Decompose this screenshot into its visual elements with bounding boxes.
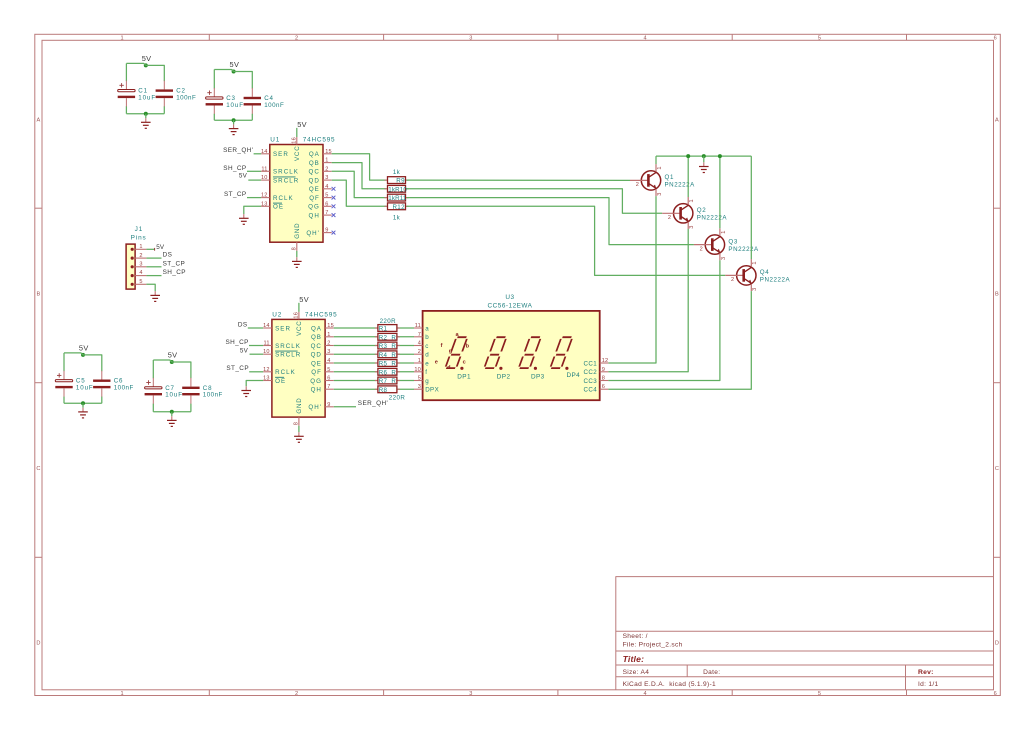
svg-text:R: R (391, 343, 396, 350)
svg-text:C: C (36, 466, 40, 472)
svg-text:3: 3 (721, 257, 727, 260)
svg-text:5: 5 (139, 279, 142, 285)
svg-text:D: D (995, 641, 999, 647)
capacitor C2 (156, 81, 197, 114)
power 5V at U2 SRCLR (240, 348, 249, 355)
junction C3/C4 gnd (232, 118, 236, 122)
wire U2 QC to R3 (334, 345, 377, 347)
svg-text:R3: R3 (379, 343, 388, 350)
svg-text:2: 2 (418, 349, 421, 355)
svg-text:QF: QF (309, 195, 320, 202)
svg-text:ST_CP: ST_CP (163, 260, 186, 267)
junction rail at ground (702, 154, 706, 158)
label DS at U2 (238, 321, 248, 328)
wire U1 QB to R10 (332, 163, 387, 189)
svg-text:1: 1 (657, 166, 663, 169)
wire R5 to U3 (398, 362, 414, 364)
wire R6 to U3 (398, 371, 414, 373)
wire collector rail (656, 155, 751, 157)
svg-text:9: 9 (325, 228, 328, 234)
pin 3 QD of U1 (309, 175, 332, 184)
svg-text:PN2222A: PN2222A (665, 182, 696, 189)
svg-text:A: A (37, 118, 41, 124)
pin 16 VCC of U2 (294, 312, 303, 336)
display digit 2 segments (484, 337, 506, 370)
wire SH_CP to U2 SRCLK (249, 345, 263, 347)
capacitor C1 (118, 81, 156, 114)
svg-text:QH': QH' (308, 404, 321, 411)
wire R10 to Q2 base (407, 189, 663, 214)
wire C6 top right (83, 355, 102, 371)
label ST_CP at J1 (163, 260, 186, 267)
svg-text:3: 3 (469, 36, 472, 42)
svg-text:SH_CP: SH_CP (223, 165, 246, 172)
IC U3 display body (423, 311, 600, 400)
pin 6 QG of U1 (308, 201, 332, 210)
ground C7/C8 (167, 416, 177, 426)
svg-text:Id: 1/1: Id: 1/1 (918, 681, 938, 688)
svg-text:QH: QH (309, 212, 320, 219)
svg-text:a: a (425, 325, 429, 332)
svg-text:1: 1 (327, 332, 330, 338)
svg-text:14: 14 (261, 149, 268, 155)
display digit 3 segments (519, 337, 541, 370)
svg-text:R: R (391, 369, 396, 376)
IC U1 value 74HC595 (303, 137, 336, 144)
wire U1 GND to ground (296, 251, 298, 257)
svg-text:Q4: Q4 (760, 269, 770, 276)
svg-text:2: 2 (139, 253, 142, 259)
svg-text:1: 1 (418, 358, 421, 364)
pin 2 QC of U1 (309, 166, 332, 175)
svg-text:SER_QH': SER_QH' (223, 147, 253, 154)
svg-text:R: R (391, 361, 396, 368)
svg-text:R5: R5 (379, 361, 388, 368)
svg-text:d: d (447, 365, 451, 371)
svg-text:2: 2 (668, 215, 671, 221)
svg-text:11: 11 (263, 341, 269, 347)
svg-text:6: 6 (994, 36, 997, 42)
svg-text:4: 4 (327, 358, 330, 364)
svg-text:QD: QD (309, 177, 320, 184)
display digit1 segment letters (435, 332, 470, 371)
IC U2 reference (272, 311, 282, 318)
label ST_CP at U2 (226, 365, 249, 372)
label DS at J1 (163, 252, 173, 259)
pin 9 QH' of U2 (308, 402, 333, 411)
wire C1 left vertical (125, 63, 127, 81)
svg-text:QE: QE (311, 360, 322, 367)
resistor R1 220R (375, 318, 400, 332)
svg-text:12: 12 (602, 358, 609, 364)
svg-text:f: f (441, 343, 443, 349)
wire J1 pin4 to SH_CP (146, 275, 161, 277)
pin 7 QH of U2 (311, 384, 334, 393)
svg-text:PN2222A: PN2222A (697, 215, 728, 222)
pin 5 of J1 (131, 279, 147, 286)
pin 13 OE of U1 (261, 201, 284, 210)
ground U1 GND (292, 257, 302, 267)
no-connect U1 QF (332, 196, 336, 200)
svg-text:GND: GND (294, 223, 301, 239)
wire C2 top right (146, 65, 165, 81)
wire R3 to U3 (398, 345, 414, 347)
svg-text:DP4: DP4 (566, 372, 580, 379)
svg-text:VCC: VCC (296, 320, 303, 335)
svg-text:QH': QH' (306, 230, 319, 237)
capacitor C8 (182, 378, 223, 412)
IC U3 reference (505, 294, 514, 301)
svg-text:4: 4 (418, 341, 421, 347)
svg-text:11: 11 (261, 166, 267, 172)
svg-text:OE: OE (275, 378, 286, 385)
connector J1 value Pins (131, 235, 147, 242)
display digit 1 segments (445, 337, 467, 370)
svg-text:QB: QB (309, 160, 320, 167)
wire Q2 collector (687, 156, 689, 197)
svg-text:c: c (463, 360, 466, 366)
wire J1 pin3 to ST_CP (146, 266, 161, 268)
wire SER_QH' to U1 SER (254, 153, 262, 155)
svg-text:R1: R1 (379, 326, 388, 333)
wire R12 to Q4 base (407, 206, 726, 275)
pin 1 of J1 (131, 244, 147, 251)
svg-text:R: R (391, 378, 396, 385)
resistor R9 1k (385, 169, 409, 185)
svg-text:d: d (425, 352, 429, 359)
svg-text:5V: 5V (230, 60, 240, 69)
svg-text:QG: QG (310, 378, 322, 385)
svg-text:QC: QC (311, 343, 322, 350)
wire C1/C2 gnd stub (145, 114, 147, 118)
svg-text:9: 9 (327, 402, 330, 408)
svg-text:10uF: 10uF (138, 94, 156, 101)
svg-text:220R: 220R (380, 318, 397, 325)
svg-text:R: R (391, 334, 396, 341)
svg-text:1: 1 (721, 230, 727, 233)
svg-text:4: 4 (644, 691, 647, 697)
svg-text:15: 15 (327, 323, 334, 329)
wire U3 CC3 to Q3 emitter (608, 260, 720, 380)
ground U1 OE (239, 214, 249, 224)
wire U2 QA to R1 (334, 327, 377, 329)
pin 7 segment b of U3 (414, 332, 429, 341)
wire U1 QD to R12 (332, 180, 387, 206)
pin 2 QC of U2 (311, 341, 334, 350)
IC U1 reference (270, 137, 280, 144)
svg-text:3: 3 (325, 175, 328, 181)
resistor R3 220R (375, 342, 400, 350)
wire Q1 collector (655, 156, 657, 164)
svg-text:12: 12 (263, 367, 270, 373)
svg-text:File: Project_2.sch: File: Project_2.sch (623, 642, 683, 649)
svg-text:A: A (995, 118, 999, 124)
resistor R4 220R (375, 351, 400, 359)
wire 5V to U1 VCC (296, 128, 298, 137)
svg-text:4: 4 (139, 270, 142, 276)
ground U2 OE (241, 386, 251, 396)
svg-text:g: g (425, 378, 429, 385)
svg-text:Title:: Title: (623, 654, 645, 664)
svg-text:14: 14 (263, 323, 270, 329)
pin 1 segment e of U3 (414, 358, 429, 367)
transistor Q4 PN2222A (725, 259, 790, 291)
svg-text:e: e (425, 360, 429, 367)
svg-text:4: 4 (644, 36, 647, 42)
svg-text:3: 3 (689, 225, 695, 228)
resistor R2 220R (375, 333, 400, 341)
wire J1 pin2 to DS (146, 257, 161, 259)
pin 3 QD of U2 (311, 349, 334, 358)
wire rail ground stub (703, 156, 705, 162)
svg-text:10: 10 (261, 175, 268, 181)
svg-text:RCLK: RCLK (273, 195, 294, 202)
svg-text:U1: U1 (270, 137, 280, 144)
pin 11 SRCLK of U2 (263, 341, 301, 350)
svg-text:2: 2 (295, 36, 298, 42)
svg-text:VCC: VCC (294, 146, 301, 161)
wire U2 QG to R7 (334, 380, 377, 382)
svg-text:5V: 5V (79, 343, 89, 352)
wire C1 top left (126, 63, 145, 65)
svg-text:6: 6 (602, 384, 605, 390)
wire J1 pin5 to ground (146, 284, 155, 291)
power 5V for C3/C4 (230, 60, 240, 74)
pin 4 QE of U2 (311, 358, 334, 367)
pin 7 QH of U1 (309, 210, 332, 219)
pin 13 OE of U2 (263, 376, 286, 385)
power 5V at U1 SRCLR (239, 173, 248, 180)
svg-text:5V: 5V (299, 295, 309, 304)
svg-text:3: 3 (327, 349, 330, 355)
IC U2 value 74HC595 (305, 311, 338, 318)
svg-text:SRCLR: SRCLR (273, 177, 299, 184)
wire U2 QB to R2 (334, 336, 377, 338)
svg-text:16: 16 (291, 137, 297, 144)
svg-text:5: 5 (325, 193, 328, 199)
ground C1/C2 (141, 118, 151, 128)
svg-text:SER: SER (275, 325, 291, 332)
svg-text:B: B (37, 292, 41, 298)
svg-text:8: 8 (291, 247, 297, 250)
junction C1/C2 gnd (144, 112, 148, 116)
svg-text:2: 2 (327, 341, 330, 347)
wire C7 top left (153, 360, 172, 362)
svg-text:QC: QC (309, 169, 320, 176)
svg-text:ST_CP: ST_CP (226, 365, 249, 372)
svg-text:3: 3 (469, 691, 472, 697)
display DP labels (457, 372, 580, 380)
svg-text:5: 5 (327, 367, 330, 373)
pin 2 of J1 (131, 253, 147, 260)
pin 15 QA of U2 (311, 323, 334, 332)
wire R9 to Q1 base (407, 179, 631, 181)
pin 4 QE of U1 (309, 184, 332, 193)
pin 8 GND of U1 (291, 223, 300, 251)
wire DS to U2 SER (248, 327, 263, 329)
capacitor C4 (244, 88, 285, 120)
pin 11 SRCLK of U1 (261, 166, 299, 175)
svg-text:QE: QE (309, 186, 320, 193)
svg-text:2: 2 (325, 166, 328, 172)
svg-text:3: 3 (418, 384, 421, 390)
svg-text:1kR10: 1kR10 (388, 186, 407, 193)
pin 10 SRCLR of U1 (261, 175, 299, 184)
wire C7/C8 bottom (153, 411, 191, 413)
svg-text:74HC595: 74HC595 (303, 137, 336, 144)
svg-text:3: 3 (139, 262, 142, 268)
svg-text:2: 2 (700, 246, 703, 252)
ground C3/C4 (229, 124, 239, 134)
junction C7/C8 gnd (170, 410, 174, 414)
svg-text:R4: R4 (379, 352, 388, 359)
wire SH_CP to U1 SRCLK (247, 170, 261, 172)
power 5V for C1/C2 (142, 54, 152, 68)
IC U2 74HC595 body (272, 319, 325, 417)
wire 5V to U2 VCC (298, 303, 300, 312)
svg-text:SRCLR: SRCLR (275, 352, 301, 359)
pin 5 QF of U2 (311, 367, 333, 376)
wire U3 CC2 to Q2 emitter (608, 229, 688, 372)
wire U1 QC to R11 (332, 171, 387, 197)
wire ST_CP to U2 RCLK (249, 371, 263, 373)
svg-text:7: 7 (327, 384, 330, 390)
svg-text:5V: 5V (168, 350, 178, 359)
capacitor C3 (206, 88, 244, 120)
title block frame (616, 577, 994, 690)
svg-text:SH_CP: SH_CP (163, 269, 186, 276)
wire U2 QH' to SER_QH' (334, 406, 356, 408)
connector J1 reference (135, 226, 144, 233)
svg-text:Size: A4: Size: A4 (623, 669, 650, 676)
wire R1 to U3 (398, 327, 414, 329)
pin 8 GND of U2 (294, 397, 303, 425)
transistor Q1 PN2222A (630, 164, 695, 196)
pin 14 SER of U2 (263, 323, 291, 332)
svg-text:CC4: CC4 (584, 387, 598, 394)
svg-text:SH_CP: SH_CP (225, 339, 248, 346)
svg-text:100nF: 100nF (264, 102, 284, 109)
svg-text:Date:: Date: (703, 669, 720, 676)
svg-text:e: e (435, 360, 438, 366)
svg-text:PN2222A: PN2222A (760, 277, 791, 284)
pin 12 RCLK of U1 (261, 193, 294, 202)
no-connect U1 QE (332, 187, 336, 191)
svg-text:B: B (995, 292, 999, 298)
svg-text:5V: 5V (240, 348, 249, 355)
power 5V at J1 pin1 (155, 244, 165, 251)
svg-text:PN2222A: PN2222A (728, 246, 759, 253)
svg-text:11: 11 (415, 323, 421, 329)
wire C5 top left (64, 353, 83, 355)
svg-text:9: 9 (602, 367, 605, 373)
svg-text:1: 1 (752, 261, 758, 264)
svg-text:Q2: Q2 (697, 207, 707, 214)
svg-text:CC1: CC1 (584, 360, 598, 367)
wire C1/C2 bottom (126, 113, 164, 115)
label SH_CP at J1 (163, 269, 186, 276)
ground U2 GND (294, 432, 304, 442)
svg-text:10: 10 (263, 349, 270, 355)
svg-text:4: 4 (325, 184, 328, 190)
pin 1 QB of U2 (311, 332, 334, 341)
svg-text:R7: R7 (379, 378, 388, 385)
resistor R8 220R (375, 386, 405, 402)
junction rail at Q3 (718, 154, 722, 158)
resistor R12 1k (385, 203, 409, 222)
transistor Q2 PN2222A (662, 197, 727, 229)
pin 4 of J1 (131, 270, 147, 277)
pin 10 segment f of U3 (414, 367, 427, 376)
capacitor C6 (93, 371, 134, 404)
power 5V at U2 VCC (299, 295, 309, 304)
svg-text:1kR11: 1kR11 (388, 195, 407, 202)
power 5V at U1 VCC (297, 120, 307, 129)
IC U1 74HC595 body (270, 145, 323, 243)
display digit 4 segments (550, 337, 572, 370)
pin 3 of J1 (131, 262, 147, 269)
svg-text:5V: 5V (297, 120, 307, 129)
svg-text:KiCad E.D.A. kicad (5.1.9)-1: KiCad E.D.A. kicad (5.1.9)-1 (623, 681, 716, 688)
wire U3 CC4 to Q4 emitter (608, 291, 751, 389)
svg-text:220R: 220R (389, 395, 406, 402)
svg-text:1k: 1k (393, 169, 401, 176)
wire C5/C6 bottom (64, 402, 102, 404)
wire U2 QF to R6 (334, 371, 377, 373)
wire R7 to U3 (398, 380, 414, 382)
svg-text:GND: GND (296, 397, 303, 413)
svg-text:1k: 1k (393, 215, 401, 222)
svg-text:2: 2 (731, 277, 734, 283)
wire R11 to Q3 base (407, 198, 694, 245)
wire 5V to U1 SRCLR (248, 179, 261, 181)
svg-text:R: R (391, 352, 396, 359)
svg-text:c: c (425, 343, 429, 350)
ground collector rail (699, 162, 709, 172)
svg-text:f: f (425, 369, 427, 376)
wire C3 top left (214, 70, 233, 72)
svg-text:100nF: 100nF (203, 392, 223, 399)
svg-text:DP1: DP1 (457, 374, 471, 381)
wire Q4 collector (750, 156, 752, 259)
label SER_QH' at U1 (223, 147, 253, 154)
wire U2 QH to R8 (334, 388, 377, 390)
svg-text:QH: QH (311, 387, 322, 394)
pin 16 VCC of U1 (291, 137, 300, 161)
wire C7/C8 gnd stub (171, 412, 173, 416)
ground J1 pin5 (150, 291, 160, 301)
wire U2 QD to R4 (334, 353, 377, 355)
svg-text:12: 12 (261, 193, 268, 199)
svg-text:DS: DS (163, 252, 173, 259)
wire C5/C6 gnd stub (82, 403, 84, 407)
svg-text:b: b (425, 334, 429, 341)
wire R4 to U3 (398, 353, 414, 355)
wire ST_CP to U1 RCLK (247, 197, 261, 199)
transistor Q3 PN2222A (694, 228, 759, 260)
power 5V for C5/C6 (79, 343, 89, 357)
pin 2 segment d of U3 (414, 349, 429, 358)
label SER_QH' at U2 (358, 400, 388, 407)
svg-text:SER_QH': SER_QH' (358, 400, 388, 407)
pin 5 QF of U1 (309, 193, 331, 202)
svg-text:QG: QG (308, 204, 320, 211)
label SH_CP at U2 (225, 339, 248, 346)
svg-text:Sheet: /: Sheet: / (623, 633, 648, 640)
pin 6 CC4 of U3 (584, 384, 609, 393)
svg-text:SER: SER (273, 151, 289, 158)
svg-text:5: 5 (418, 376, 421, 382)
